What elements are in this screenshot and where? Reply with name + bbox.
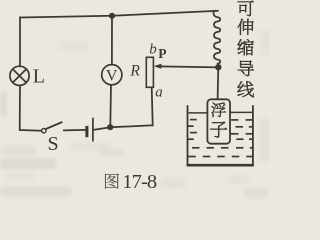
- wire slider P to right junction: [161, 65, 219, 68]
- paper background: [0, 0, 270, 203]
- coil of extensible wire: [214, 11, 221, 66]
- water surface right: [230, 111, 252, 113]
- water surface left: [188, 112, 207, 114]
- caption 图 17-8: [105, 174, 119, 189]
- wire voltmeter bottom branch: [109, 85, 112, 127]
- svg-text:b: b: [149, 42, 157, 58]
- tank bottom: [187, 164, 254, 167]
- rheostat R body: [146, 57, 153, 87]
- battery positive plate: [92, 118, 94, 142]
- battery negative plate: [85, 126, 88, 137]
- node: bottom junction: [107, 124, 113, 130]
- svg-text:S: S: [48, 133, 59, 155]
- wire battery to rheostat bottom corner: [94, 125, 153, 130]
- wire junction down to float: [217, 66, 220, 100]
- wire top horizontal: [20, 11, 218, 18]
- svg-text:a: a: [155, 85, 163, 101]
- wire left vertical: [19, 18, 21, 67]
- wire rheostat a terminal: [152, 87, 153, 125]
- voltmeter U1: [102, 65, 122, 85]
- switch S pivot: [42, 129, 46, 133]
- tank right wall: [252, 105, 254, 165]
- node: top junction: [109, 13, 115, 19]
- wire switch to battery: [64, 129, 86, 132]
- slider arrow head: [154, 64, 162, 69]
- svg-text:17-8: 17-8: [122, 171, 157, 193]
- wire voltmeter top branch: [111, 16, 113, 65]
- node: right junction: [215, 64, 221, 70]
- wire lamp to bottom corner: [20, 85, 42, 130]
- switch S lever: [46, 122, 63, 129]
- svg-text:R: R: [129, 63, 140, 80]
- float body: [207, 99, 230, 143]
- svg-text:L: L: [33, 66, 45, 88]
- label 浮子: [210, 102, 227, 137]
- svg-text:P: P: [158, 46, 166, 61]
- svg-text:V: V: [106, 67, 118, 84]
- tank left wall: [187, 105, 189, 165]
- lamp L symbol: [10, 66, 29, 85]
- label 可伸缩导线: [237, 1, 253, 98]
- water dashes: [188, 120, 253, 157]
